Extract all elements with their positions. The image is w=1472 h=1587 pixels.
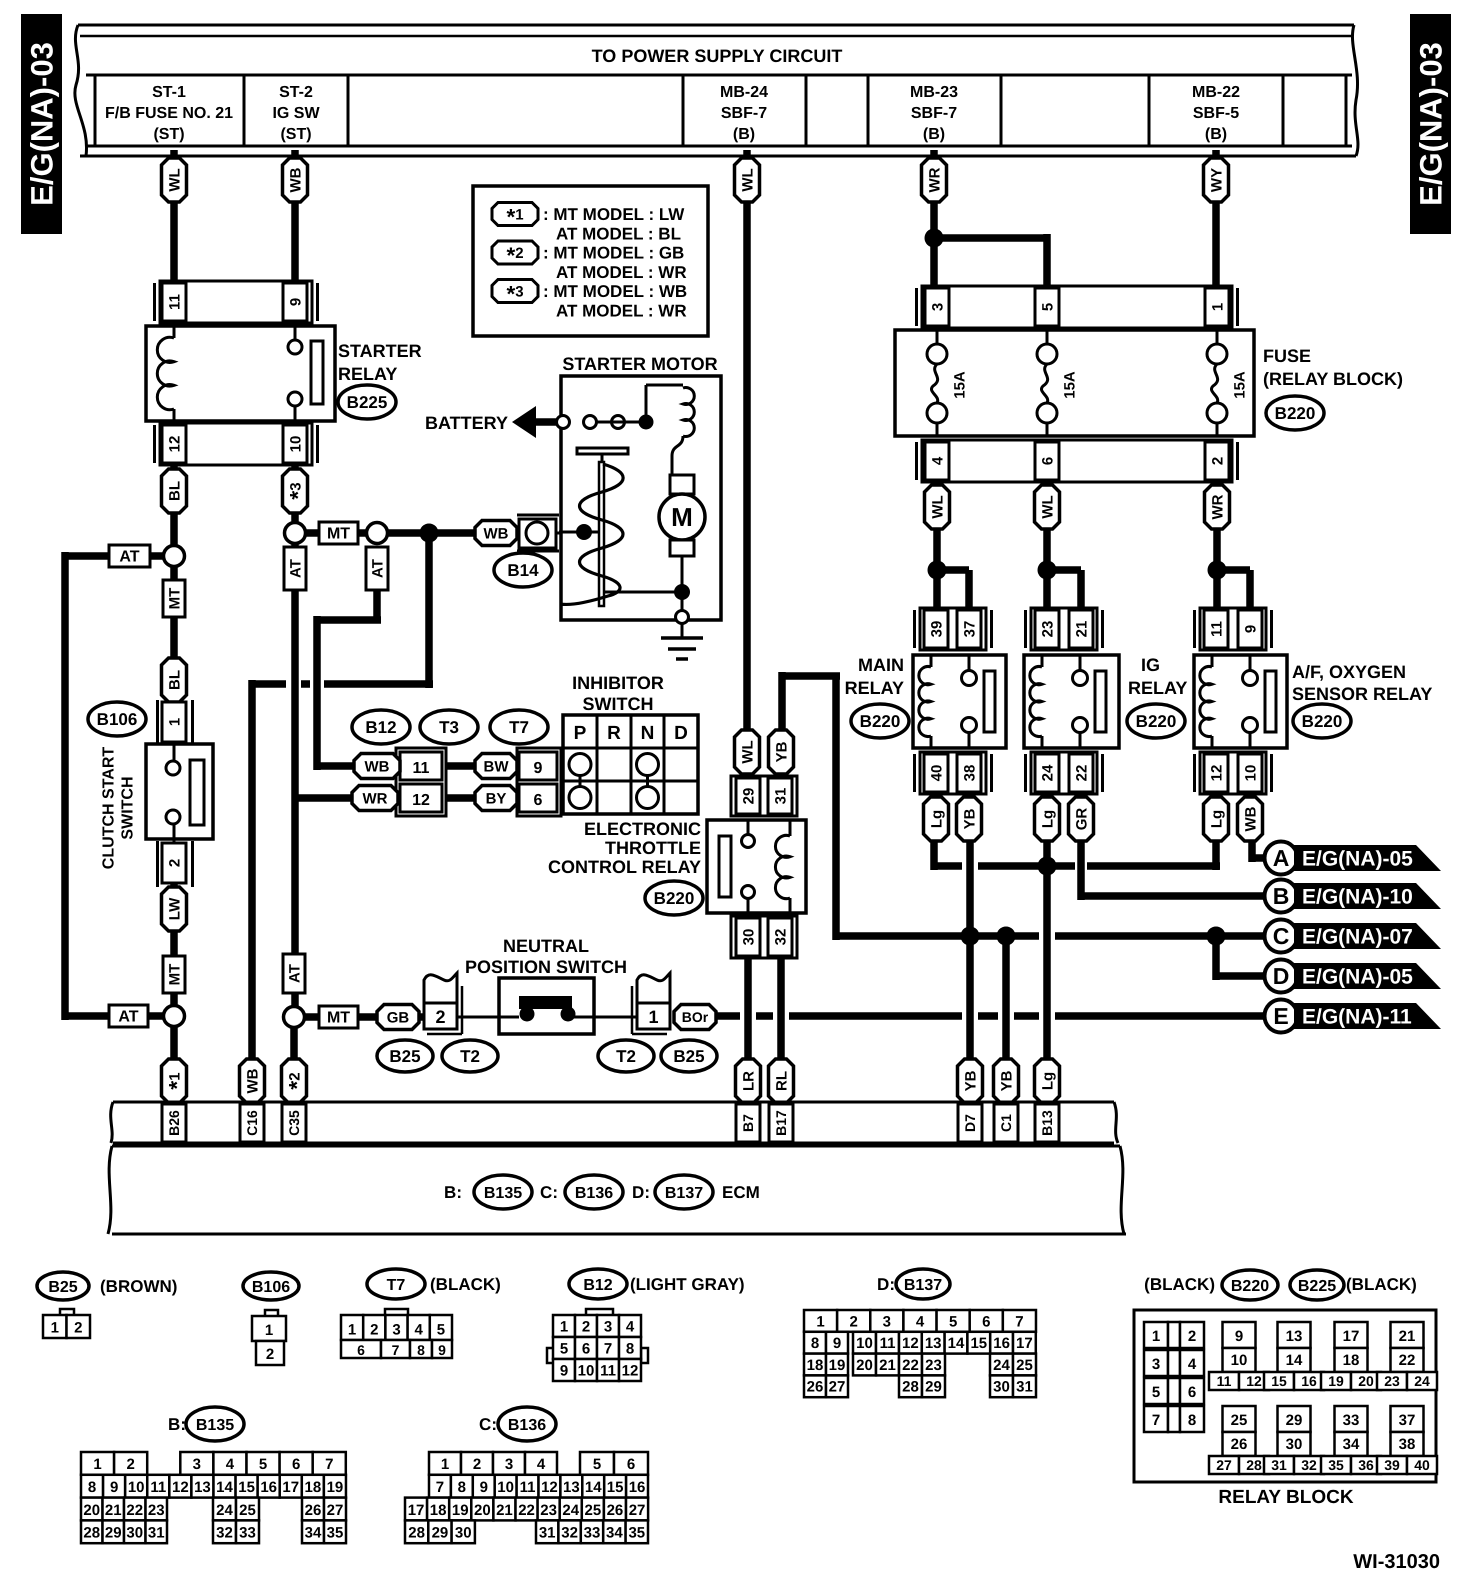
svg-text:B137: B137 — [665, 1185, 703, 1202]
svg-text:M: M — [671, 502, 693, 532]
svg-text:ELECTRONIC: ELECTRONIC — [584, 819, 701, 839]
svg-text:30: 30 — [126, 1525, 143, 1542]
svg-text:R: R — [607, 723, 621, 744]
svg-text:33: 33 — [239, 1525, 256, 1542]
svg-text:22: 22 — [518, 1502, 535, 1519]
svg-text:BATTERY: BATTERY — [425, 413, 508, 433]
svg-text:16: 16 — [993, 1335, 1010, 1352]
svg-text:15: 15 — [238, 1479, 255, 1496]
svg-text:3: 3 — [505, 1456, 513, 1473]
svg-text:IG: IG — [1141, 655, 1160, 675]
svg-text:1: 1 — [1209, 303, 1226, 311]
svg-text:BL: BL — [166, 670, 183, 690]
svg-text:RELAY BLOCK: RELAY BLOCK — [1218, 1487, 1353, 1508]
svg-text:3: 3 — [193, 1456, 201, 1473]
svg-text:8: 8 — [626, 1341, 634, 1358]
svg-text:B220: B220 — [860, 712, 901, 731]
svg-text:MAIN: MAIN — [858, 655, 904, 675]
svg-text:CLUTCH START: CLUTCH START — [101, 747, 118, 870]
svg-text:Lg: Lg — [1039, 1072, 1056, 1090]
svg-text:AT: AT — [286, 964, 303, 983]
svg-text:E/G(NA)-11: E/G(NA)-11 — [1302, 1006, 1412, 1029]
svg-text:4: 4 — [929, 456, 946, 465]
svg-text:4: 4 — [415, 1322, 424, 1339]
svg-text:19: 19 — [829, 1357, 846, 1374]
svg-text:31: 31 — [148, 1525, 165, 1542]
svg-text:17: 17 — [408, 1502, 425, 1519]
svg-text:BY: BY — [486, 790, 507, 807]
svg-text:28: 28 — [83, 1525, 100, 1542]
svg-text:WI-31030: WI-31030 — [1353, 1551, 1440, 1573]
svg-text:22: 22 — [902, 1357, 919, 1374]
svg-text:9: 9 — [1235, 1328, 1243, 1345]
svg-text:12: 12 — [622, 1363, 639, 1380]
svg-text:17: 17 — [1016, 1335, 1033, 1352]
svg-text:13: 13 — [563, 1479, 580, 1496]
svg-text:11: 11 — [1208, 621, 1225, 637]
svg-text:WB: WB — [287, 167, 304, 192]
svg-text:11: 11 — [880, 1335, 896, 1352]
svg-text:10: 10 — [128, 1479, 145, 1496]
svg-text:2: 2 — [266, 1346, 274, 1363]
svg-text:SWITCH: SWITCH — [583, 694, 654, 714]
svg-text:29: 29 — [432, 1525, 449, 1542]
svg-text:6: 6 — [982, 1313, 990, 1330]
svg-text:20: 20 — [83, 1502, 100, 1519]
svg-text:10: 10 — [497, 1479, 514, 1496]
svg-text:20: 20 — [856, 1357, 873, 1374]
svg-text:STARTER MOTOR: STARTER MOTOR — [562, 354, 717, 374]
svg-text:11: 11 — [1217, 1373, 1232, 1389]
svg-text:30: 30 — [740, 929, 757, 946]
svg-text:Lg: Lg — [1208, 810, 1225, 828]
svg-text:AT MODEL : WR: AT MODEL : WR — [556, 302, 687, 321]
svg-text:9: 9 — [1242, 625, 1259, 633]
svg-text:WL: WL — [739, 168, 756, 191]
svg-text:B225: B225 — [347, 393, 388, 412]
svg-text:B17: B17 — [773, 1110, 789, 1136]
svg-text:2: 2 — [435, 1007, 445, 1027]
svg-text:4: 4 — [626, 1319, 635, 1336]
svg-text:SENSOR RELAY: SENSOR RELAY — [1292, 684, 1432, 704]
svg-text:12: 12 — [166, 436, 183, 453]
svg-text:B26: B26 — [166, 1110, 182, 1136]
svg-text:39: 39 — [1384, 1457, 1400, 1473]
svg-text:E/G(NA)-03: E/G(NA)-03 — [24, 42, 59, 206]
svg-text:B136: B136 — [575, 1185, 613, 1202]
svg-text:12: 12 — [412, 792, 430, 809]
svg-text:15: 15 — [970, 1335, 987, 1352]
svg-text:28: 28 — [902, 1379, 919, 1396]
svg-text:(BROWN): (BROWN) — [100, 1277, 177, 1296]
svg-text:6: 6 — [534, 792, 543, 809]
svg-text:15A: 15A — [951, 371, 968, 399]
svg-text:T7: T7 — [387, 1277, 406, 1294]
svg-text:T7: T7 — [509, 718, 529, 737]
svg-text:B12: B12 — [583, 1277, 612, 1294]
svg-text:20: 20 — [1358, 1373, 1374, 1389]
svg-text:26: 26 — [807, 1379, 824, 1396]
svg-text:AT: AT — [119, 549, 139, 566]
svg-text:ECM: ECM — [722, 1183, 760, 1202]
svg-text:27: 27 — [1216, 1457, 1232, 1473]
svg-text:B220: B220 — [1231, 1278, 1269, 1295]
svg-text:21: 21 — [879, 1357, 896, 1374]
svg-text:8: 8 — [458, 1479, 466, 1496]
svg-text:1: 1 — [816, 1313, 824, 1330]
svg-text:30: 30 — [455, 1525, 472, 1542]
svg-text:ST-1: ST-1 — [152, 84, 186, 101]
svg-text:32: 32 — [1301, 1457, 1317, 1473]
svg-text:23: 23 — [925, 1357, 942, 1374]
svg-text:RELAY: RELAY — [1128, 678, 1187, 698]
svg-text:8: 8 — [417, 1342, 425, 1358]
svg-text:4: 4 — [226, 1456, 235, 1473]
svg-text:1: 1 — [441, 1456, 449, 1473]
svg-text:34: 34 — [305, 1525, 322, 1542]
svg-text:13: 13 — [194, 1479, 211, 1496]
svg-text:2: 2 — [1188, 1328, 1196, 1345]
svg-text:B220: B220 — [1302, 712, 1343, 731]
svg-text:6: 6 — [627, 1456, 635, 1473]
svg-text:9: 9 — [110, 1479, 118, 1496]
svg-text:12: 12 — [172, 1479, 189, 1496]
svg-text:10: 10 — [1242, 765, 1259, 782]
svg-text:29: 29 — [740, 788, 757, 805]
svg-text:21: 21 — [1073, 621, 1090, 638]
svg-text:E/G(NA)-05: E/G(NA)-05 — [1302, 848, 1413, 871]
svg-text:B25: B25 — [48, 1279, 77, 1296]
svg-text:T2: T2 — [616, 1047, 636, 1066]
svg-text:C1: C1 — [998, 1114, 1014, 1132]
svg-text:15: 15 — [607, 1479, 624, 1496]
svg-text:27: 27 — [327, 1502, 344, 1519]
svg-text:38: 38 — [961, 765, 978, 782]
svg-text:E: E — [1273, 1003, 1288, 1029]
svg-text:2: 2 — [126, 1456, 134, 1473]
svg-text:8: 8 — [811, 1335, 819, 1352]
svg-text:MT: MT — [327, 526, 350, 543]
svg-text:7: 7 — [325, 1456, 333, 1473]
svg-text:1: 1 — [560, 1319, 568, 1336]
svg-text:31: 31 — [539, 1525, 556, 1542]
svg-text:29: 29 — [925, 1379, 942, 1396]
svg-text:WL: WL — [929, 495, 946, 518]
svg-text:WY: WY — [1208, 168, 1225, 192]
svg-text:Lg: Lg — [928, 810, 945, 828]
svg-text:FUSE: FUSE — [1263, 346, 1311, 366]
svg-text:WB: WB — [484, 525, 509, 542]
svg-text:WB: WB — [244, 1068, 261, 1093]
svg-text:F/B FUSE NO. 21: F/B FUSE NO. 21 — [105, 105, 233, 122]
svg-text:YB: YB — [773, 741, 790, 762]
svg-text:3: 3 — [392, 1322, 400, 1339]
svg-text:7: 7 — [436, 1479, 444, 1496]
svg-text:19: 19 — [1328, 1373, 1344, 1389]
svg-text:STARTER: STARTER — [338, 341, 422, 361]
svg-text:21: 21 — [105, 1502, 122, 1519]
svg-text:35: 35 — [628, 1525, 645, 1542]
svg-text:MT: MT — [327, 1010, 350, 1027]
svg-text:WL: WL — [166, 168, 183, 191]
svg-text:9: 9 — [833, 1335, 841, 1352]
svg-text:A: A — [1273, 845, 1290, 871]
svg-text:2: 2 — [850, 1313, 858, 1330]
svg-text:E/G(NA)-10: E/G(NA)-10 — [1302, 886, 1413, 909]
svg-text:C: C — [1273, 923, 1290, 949]
svg-text:B137: B137 — [904, 1277, 942, 1294]
svg-text:5: 5 — [259, 1456, 267, 1473]
svg-text:1: 1 — [166, 718, 183, 726]
svg-text:11: 11 — [166, 294, 183, 310]
svg-text:BL: BL — [166, 481, 183, 501]
svg-text:B13: B13 — [1039, 1110, 1055, 1136]
svg-text:B7: B7 — [740, 1114, 756, 1132]
svg-text:6: 6 — [1039, 457, 1056, 465]
svg-text:WR: WR — [1209, 494, 1226, 519]
svg-text:(LIGHT GRAY): (LIGHT GRAY) — [630, 1275, 745, 1294]
svg-text:2: 2 — [473, 1456, 481, 1473]
svg-text:B135: B135 — [196, 1417, 234, 1434]
svg-text:(BLACK): (BLACK) — [430, 1275, 501, 1294]
svg-text:SBF-7: SBF-7 — [721, 105, 767, 122]
svg-text:32: 32 — [772, 929, 789, 946]
svg-text:10: 10 — [856, 1335, 873, 1352]
svg-text:1: 1 — [51, 1320, 59, 1337]
svg-text:C35: C35 — [286, 1110, 302, 1136]
svg-text:GR: GR — [1073, 808, 1090, 831]
svg-text:29: 29 — [1286, 1412, 1303, 1429]
svg-text:POSITION SWITCH: POSITION SWITCH — [465, 957, 627, 977]
svg-text:18: 18 — [807, 1357, 824, 1374]
svg-text:6: 6 — [292, 1456, 300, 1473]
svg-text:WB: WB — [1242, 806, 1259, 831]
svg-text:13: 13 — [1286, 1328, 1303, 1345]
svg-text:26: 26 — [305, 1502, 322, 1519]
svg-text:CONTROL RELAY: CONTROL RELAY — [548, 857, 701, 877]
svg-text:MT: MT — [166, 964, 183, 986]
svg-text:6: 6 — [357, 1342, 365, 1358]
svg-text:9: 9 — [560, 1363, 568, 1380]
svg-text:D7: D7 — [962, 1114, 978, 1132]
svg-text:15: 15 — [1271, 1373, 1287, 1389]
svg-text:25: 25 — [1231, 1412, 1248, 1429]
svg-text:: MT MODEL : LW: : MT MODEL : LW — [543, 205, 685, 224]
svg-text:30: 30 — [993, 1379, 1010, 1396]
svg-text:32: 32 — [216, 1525, 233, 1542]
svg-text:2: 2 — [582, 1319, 590, 1336]
svg-text:P: P — [574, 723, 587, 744]
svg-text:15A: 15A — [1061, 371, 1078, 399]
svg-text:ST-2: ST-2 — [279, 84, 313, 101]
svg-text:C:: C: — [540, 1183, 558, 1202]
svg-text:9: 9 — [480, 1479, 488, 1496]
svg-text:SBF-7: SBF-7 — [911, 105, 957, 122]
svg-text:8: 8 — [88, 1479, 96, 1496]
svg-text:5: 5 — [593, 1456, 601, 1473]
svg-text:23: 23 — [148, 1502, 165, 1519]
svg-text:B25: B25 — [673, 1047, 704, 1066]
svg-text:MB-22: MB-22 — [1192, 84, 1240, 101]
svg-text:3: 3 — [604, 1319, 612, 1336]
svg-text:NEUTRAL: NEUTRAL — [503, 936, 589, 956]
svg-text:B136: B136 — [508, 1417, 546, 1434]
svg-text:16: 16 — [260, 1479, 277, 1496]
svg-text:5: 5 — [1152, 1384, 1160, 1401]
svg-text:37: 37 — [961, 621, 978, 638]
svg-text:WL: WL — [1039, 495, 1056, 518]
svg-text:MB-23: MB-23 — [910, 84, 958, 101]
svg-text:22: 22 — [126, 1502, 143, 1519]
svg-text:38: 38 — [1399, 1436, 1416, 1453]
svg-text:11: 11 — [150, 1479, 166, 1496]
svg-text:T2: T2 — [460, 1047, 480, 1066]
svg-text:7: 7 — [392, 1342, 400, 1358]
svg-text:1: 1 — [1152, 1328, 1160, 1345]
svg-text:BW: BW — [484, 758, 510, 775]
svg-text:E/G(NA)-03: E/G(NA)-03 — [1413, 42, 1448, 206]
svg-text:22: 22 — [1073, 765, 1090, 782]
svg-text:35: 35 — [1328, 1457, 1344, 1473]
svg-text:5: 5 — [437, 1322, 445, 1339]
svg-text:26: 26 — [607, 1502, 624, 1519]
svg-text:27: 27 — [629, 1502, 646, 1519]
svg-text:11: 11 — [600, 1363, 616, 1380]
svg-text:AT MODEL : BL: AT MODEL : BL — [556, 225, 681, 244]
svg-text:21: 21 — [1399, 1328, 1416, 1345]
svg-text:SBF-5: SBF-5 — [1193, 105, 1239, 122]
svg-text:26: 26 — [1231, 1436, 1248, 1453]
svg-text:14: 14 — [1286, 1352, 1303, 1369]
svg-text:12: 12 — [1208, 765, 1225, 782]
svg-text:5: 5 — [1039, 303, 1056, 311]
svg-text:B12: B12 — [365, 718, 396, 737]
svg-text:B: B — [1273, 883, 1290, 909]
svg-text:12: 12 — [541, 1479, 558, 1496]
svg-text:B220: B220 — [654, 889, 695, 908]
svg-text:25: 25 — [1016, 1357, 1033, 1374]
svg-text:16: 16 — [1301, 1373, 1317, 1389]
svg-text:31: 31 — [1271, 1457, 1287, 1473]
svg-text:B220: B220 — [1136, 712, 1177, 731]
svg-text:MB-24: MB-24 — [720, 84, 768, 101]
svg-text:D:: D: — [632, 1183, 650, 1202]
svg-text:18: 18 — [1343, 1352, 1360, 1369]
svg-text:24: 24 — [562, 1502, 579, 1519]
svg-text:25: 25 — [585, 1502, 602, 1519]
svg-text:B220: B220 — [1275, 404, 1316, 423]
svg-text:D:: D: — [877, 1275, 895, 1294]
svg-text:(ST): (ST) — [280, 126, 311, 143]
svg-text:B14: B14 — [507, 561, 539, 580]
svg-text:(ST): (ST) — [153, 126, 184, 143]
svg-text:31: 31 — [1016, 1379, 1033, 1396]
svg-text:22: 22 — [1399, 1352, 1416, 1369]
svg-text:31: 31 — [772, 788, 789, 805]
svg-text:7: 7 — [1152, 1412, 1160, 1429]
svg-text:33: 33 — [584, 1525, 601, 1542]
svg-text:34: 34 — [606, 1525, 623, 1542]
svg-text:7: 7 — [604, 1341, 612, 1358]
svg-text:18: 18 — [430, 1502, 447, 1519]
svg-text:MT: MT — [166, 588, 183, 610]
svg-text:40: 40 — [1414, 1457, 1430, 1473]
svg-text:B106: B106 — [97, 710, 138, 729]
svg-text:39: 39 — [928, 621, 945, 638]
svg-text:19: 19 — [452, 1502, 469, 1519]
svg-text:12: 12 — [1246, 1373, 1262, 1389]
svg-text:10: 10 — [1231, 1352, 1248, 1369]
svg-text:T3: T3 — [439, 718, 459, 737]
svg-text:2: 2 — [1209, 457, 1226, 465]
svg-text:17: 17 — [282, 1479, 299, 1496]
svg-text:AT: AT — [118, 1009, 138, 1026]
svg-text:A/F, OXYGEN: A/F, OXYGEN — [1292, 662, 1406, 682]
svg-text:11: 11 — [413, 760, 430, 777]
svg-text:9: 9 — [438, 1342, 446, 1358]
svg-text:7: 7 — [1015, 1313, 1023, 1330]
svg-text:3: 3 — [883, 1313, 891, 1330]
svg-text:24: 24 — [1414, 1373, 1430, 1389]
svg-text:37: 37 — [1399, 1412, 1416, 1429]
svg-text:RELAY: RELAY — [338, 364, 397, 384]
svg-text:29: 29 — [105, 1525, 122, 1542]
svg-text:B135: B135 — [484, 1185, 522, 1202]
svg-text:32: 32 — [561, 1525, 578, 1542]
svg-text:4: 4 — [1188, 1356, 1197, 1373]
svg-text:(RELAY BLOCK): (RELAY BLOCK) — [1263, 369, 1403, 389]
svg-text:21: 21 — [496, 1502, 513, 1519]
svg-text:(BLACK): (BLACK) — [1144, 1275, 1215, 1294]
svg-text:YB: YB — [961, 808, 978, 829]
svg-text:WR: WR — [363, 790, 388, 807]
svg-text:24: 24 — [1039, 764, 1056, 781]
svg-text:(BLACK): (BLACK) — [1346, 1275, 1417, 1294]
svg-text:C:: C: — [479, 1415, 497, 1434]
svg-text:LR: LR — [740, 1071, 757, 1091]
svg-text:D: D — [674, 723, 688, 744]
svg-text:YB: YB — [998, 1070, 1015, 1091]
svg-text:E/G(NA)-07: E/G(NA)-07 — [1302, 926, 1413, 949]
svg-text:23: 23 — [1384, 1373, 1400, 1389]
svg-text:2: 2 — [74, 1320, 82, 1337]
svg-text:15A: 15A — [1231, 371, 1248, 399]
svg-text:18: 18 — [304, 1479, 321, 1496]
svg-text:14: 14 — [948, 1335, 965, 1352]
svg-text:19: 19 — [327, 1479, 344, 1496]
svg-text:(B): (B) — [923, 126, 945, 143]
svg-text:17: 17 — [1343, 1328, 1360, 1345]
svg-text:8: 8 — [1188, 1412, 1196, 1429]
svg-text:1: 1 — [93, 1456, 101, 1473]
svg-text:14: 14 — [585, 1479, 602, 1496]
svg-text:Lg: Lg — [1039, 810, 1056, 828]
svg-text:C16: C16 — [244, 1110, 260, 1136]
svg-text:9: 9 — [287, 298, 304, 306]
svg-text:25: 25 — [239, 1502, 256, 1519]
svg-text:4: 4 — [537, 1456, 546, 1473]
svg-text:INHIBITOR: INHIBITOR — [572, 673, 664, 693]
svg-text:1: 1 — [265, 1322, 273, 1339]
svg-text:27: 27 — [829, 1379, 846, 1396]
svg-text:GB: GB — [387, 1009, 410, 1026]
svg-text:D: D — [1273, 963, 1290, 989]
svg-text:23: 23 — [1039, 621, 1056, 638]
svg-text:B225: B225 — [1298, 1278, 1336, 1295]
svg-text:14: 14 — [216, 1479, 233, 1496]
svg-text:33: 33 — [1343, 1412, 1360, 1429]
svg-text:LW: LW — [166, 897, 183, 920]
